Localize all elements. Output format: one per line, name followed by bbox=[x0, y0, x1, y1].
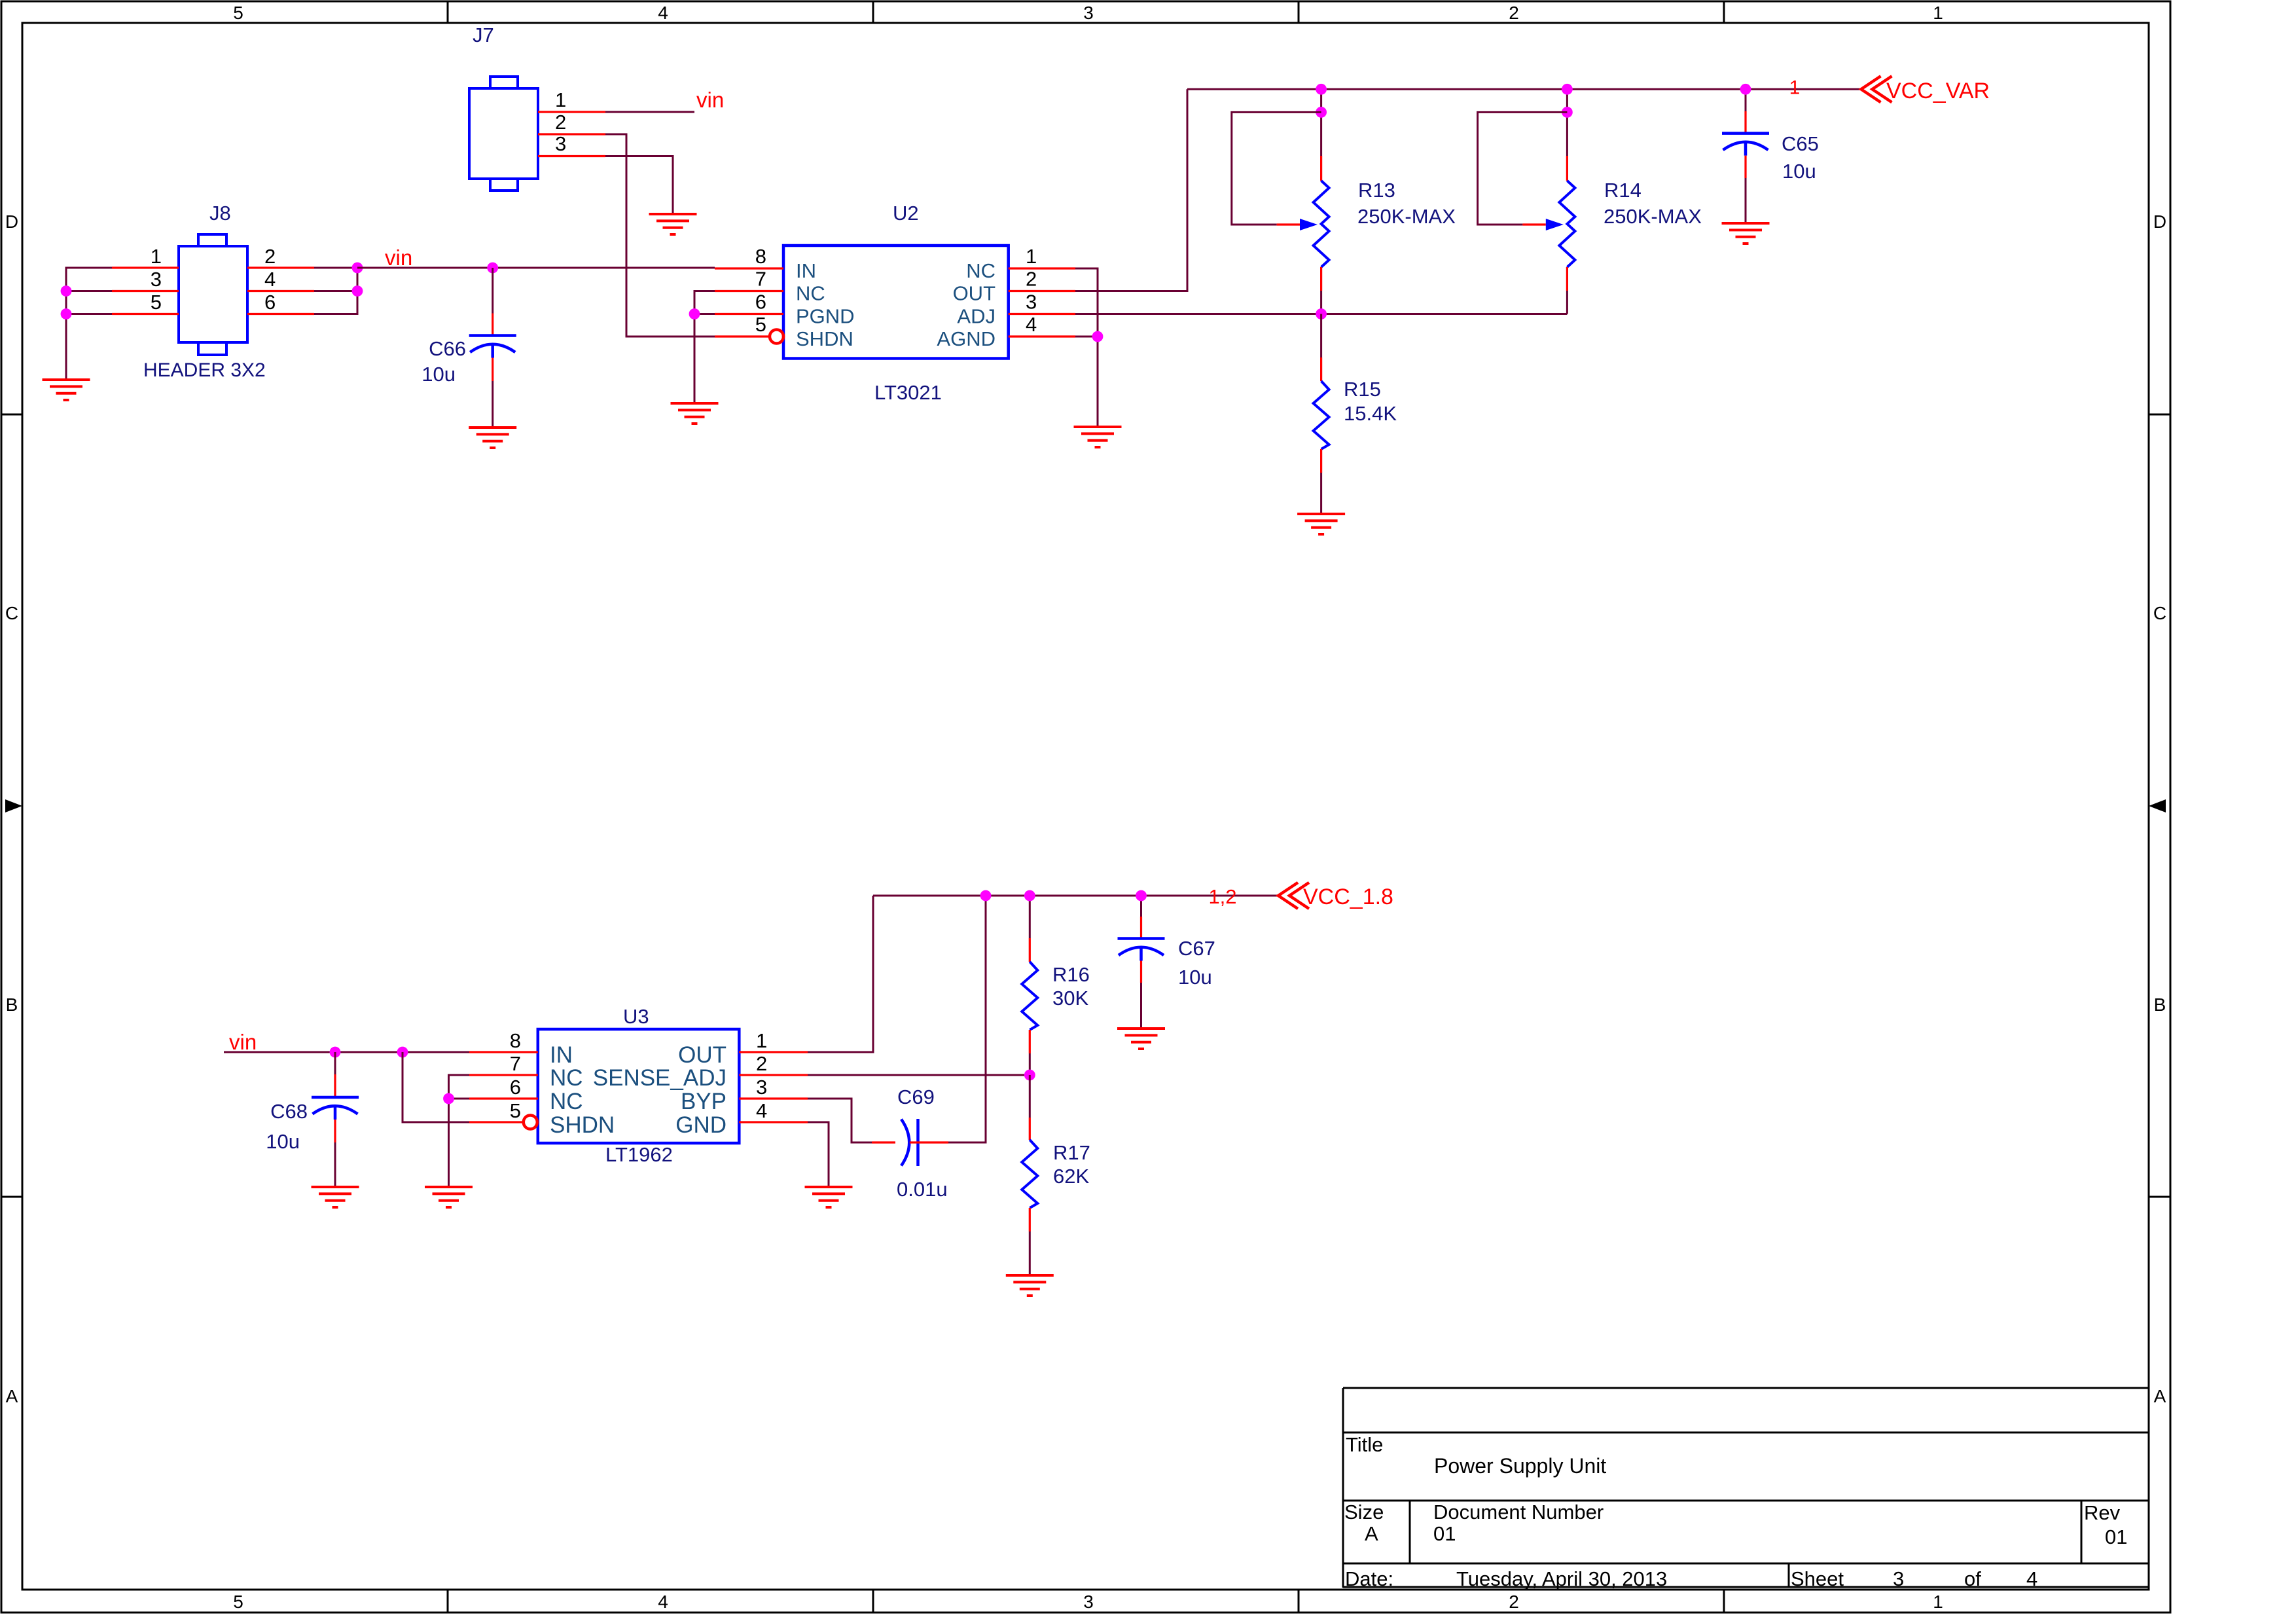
svg-text:0.01u: 0.01u bbox=[897, 1178, 948, 1201]
junction R14 wiper bbox=[1562, 107, 1573, 118]
svg-text:SENSE_ADJ: SENSE_ADJ bbox=[593, 1065, 726, 1091]
wire R14 bottom bbox=[1566, 267, 1568, 291]
J7 pin 2 bbox=[538, 133, 605, 135]
svg-text:3: 3 bbox=[1083, 1592, 1094, 1612]
wire U3 OUT up bbox=[808, 896, 873, 1052]
svg-text:1: 1 bbox=[151, 245, 162, 268]
J8 pin 1 bbox=[112, 266, 179, 268]
ground C67 bbox=[1117, 1029, 1165, 1049]
J8 pin 4 bbox=[247, 290, 314, 292]
svg-text:Title: Title bbox=[1346, 1433, 1383, 1456]
wire U2 OUT up bbox=[1075, 89, 1187, 291]
wire C68 top bbox=[334, 1052, 336, 1074]
svg-text:62K: 62K bbox=[1053, 1165, 1089, 1188]
power port VCC_1.8 bbox=[1278, 883, 1309, 909]
svg-text:5: 5 bbox=[233, 1592, 243, 1612]
svg-text:01: 01 bbox=[2105, 1525, 2127, 1548]
wire J7-3 to gnd bbox=[605, 156, 673, 215]
ground C66 bbox=[469, 428, 516, 448]
U3 pin 2 SENSE_ADJ bbox=[739, 1074, 808, 1076]
ground U2 AGND bbox=[1074, 427, 1122, 447]
capacitor C68 bbox=[312, 1097, 359, 1120]
wire C65 bottom bbox=[1744, 156, 1746, 178]
wire C67 top bbox=[1140, 896, 1142, 917]
svg-text:C69: C69 bbox=[897, 1085, 935, 1108]
wire J8 left bus bbox=[66, 268, 112, 380]
svg-text:2: 2 bbox=[1509, 1592, 1519, 1612]
resistor R15 bbox=[1314, 381, 1329, 449]
svg-text:C: C bbox=[2153, 603, 2166, 623]
ground U3 NC bbox=[425, 1187, 473, 1207]
svg-text:Sheet: Sheet bbox=[1791, 1567, 1844, 1590]
junction J8-3 bbox=[61, 285, 72, 297]
svg-text:AGND: AGND bbox=[937, 327, 996, 350]
junction PGND bbox=[689, 308, 700, 319]
svg-text:HEADER 3X2: HEADER 3X2 bbox=[143, 359, 266, 381]
frame mid arrows bbox=[5, 799, 22, 812]
svg-text:IN: IN bbox=[796, 259, 816, 282]
U2 pin 3 ADJ bbox=[1009, 313, 1075, 315]
svg-text:U3: U3 bbox=[623, 1005, 649, 1028]
svg-text:A: A bbox=[1365, 1522, 1378, 1545]
ground J7-3 bbox=[649, 214, 697, 234]
svg-text:3: 3 bbox=[1026, 291, 1037, 314]
svg-text:2: 2 bbox=[756, 1052, 767, 1075]
svg-text:4: 4 bbox=[658, 3, 668, 23]
U2 pin 6 PGND bbox=[715, 313, 783, 315]
junction vin-C68 bbox=[330, 1047, 341, 1058]
svg-text:4: 4 bbox=[264, 268, 276, 291]
capacitor C67 bbox=[1118, 939, 1165, 961]
svg-text:2: 2 bbox=[1026, 268, 1037, 291]
junction AGND bbox=[1092, 331, 1103, 342]
svg-text:7: 7 bbox=[755, 268, 766, 291]
svg-text:Power Supply Unit: Power Supply Unit bbox=[1434, 1454, 1606, 1478]
ground J8 bbox=[43, 380, 90, 400]
U3 pin 5 SHDN bbox=[469, 1121, 524, 1123]
svg-text:vin: vin bbox=[696, 88, 724, 112]
svg-text:4: 4 bbox=[756, 1099, 767, 1122]
wire C68 bottom bbox=[334, 1120, 336, 1142]
junction R13 wiper bbox=[1316, 107, 1327, 118]
U3 pin 8 IN bbox=[469, 1051, 538, 1053]
wire VCC_VAR rail bbox=[1187, 88, 1861, 90]
connector J8 bbox=[179, 234, 247, 355]
svg-text:A: A bbox=[2154, 1386, 2166, 1406]
svg-text:VCC_1.8: VCC_1.8 bbox=[1303, 884, 1393, 909]
svg-text:5: 5 bbox=[233, 3, 243, 23]
svg-text:R15: R15 bbox=[1344, 378, 1381, 401]
svg-text:2: 2 bbox=[264, 245, 276, 268]
U2 pin 2 OUT bbox=[1009, 290, 1075, 292]
ground U2 PGND bbox=[671, 403, 719, 424]
junction R16 top bbox=[1024, 890, 1035, 902]
svg-text:Date:: Date: bbox=[1345, 1567, 1393, 1590]
wire J8 right bus bbox=[314, 267, 357, 269]
J7 pin 1 bbox=[538, 111, 605, 113]
svg-text:10u: 10u bbox=[1178, 966, 1212, 989]
wire R13 wiper loop bbox=[1232, 112, 1321, 225]
svg-text:PGND: PGND bbox=[796, 305, 855, 328]
svg-text:LT1962: LT1962 bbox=[605, 1143, 673, 1166]
wire J7-1 vin bbox=[605, 111, 694, 113]
ground U3 GND bbox=[805, 1187, 853, 1207]
svg-text:C65: C65 bbox=[1782, 132, 1819, 155]
wire C67 bottom bbox=[1140, 961, 1142, 983]
wire R13 bottom bbox=[1320, 267, 1322, 291]
U2 pin 8 IN bbox=[715, 267, 783, 269]
svg-text:Rev: Rev bbox=[2084, 1501, 2121, 1524]
svg-text:1,2: 1,2 bbox=[1208, 885, 1236, 908]
wire U3 SENSE rail bbox=[808, 1074, 1030, 1076]
resistor R16 bbox=[1022, 962, 1037, 1030]
wire R13 top bbox=[1320, 89, 1322, 112]
svg-text:15.4K: 15.4K bbox=[1344, 402, 1397, 425]
svg-text:R13: R13 bbox=[1358, 179, 1395, 202]
junction C67 bbox=[1136, 890, 1147, 902]
U3 pin 1 OUT bbox=[739, 1051, 808, 1053]
svg-text:3: 3 bbox=[1083, 3, 1094, 23]
svg-text:GND: GND bbox=[675, 1112, 726, 1138]
svg-text:vin: vin bbox=[229, 1030, 257, 1054]
U3 pin 4 GND bbox=[739, 1121, 808, 1123]
svg-text:BYP: BYP bbox=[681, 1089, 726, 1114]
svg-text:R14: R14 bbox=[1604, 179, 1641, 202]
svg-text:of: of bbox=[1964, 1567, 1981, 1590]
svg-text:3: 3 bbox=[151, 268, 162, 291]
ground R15 bbox=[1297, 514, 1345, 534]
svg-text:A: A bbox=[6, 1386, 18, 1406]
U2 pin 4 AGND bbox=[1009, 335, 1075, 337]
svg-text:C68: C68 bbox=[270, 1100, 308, 1123]
svg-text:J7: J7 bbox=[473, 24, 494, 46]
svg-text:8: 8 bbox=[510, 1029, 521, 1052]
svg-text:R17: R17 bbox=[1053, 1141, 1090, 1164]
wire U3 SHDN branch bbox=[403, 1052, 469, 1122]
wire C66 top bbox=[492, 268, 493, 314]
svg-text:Tuesday, April 30, 2013: Tuesday, April 30, 2013 bbox=[1456, 1567, 1667, 1590]
svg-text:250K-MAX: 250K-MAX bbox=[1604, 205, 1702, 228]
svg-text:6: 6 bbox=[510, 1076, 521, 1099]
svg-text:3: 3 bbox=[756, 1076, 767, 1099]
svg-text:4: 4 bbox=[2026, 1567, 2037, 1590]
junction R13 top bbox=[1316, 84, 1327, 95]
junction vin-SHDN bbox=[397, 1047, 408, 1058]
junction J8-5 bbox=[61, 308, 72, 319]
ground R17 bbox=[1006, 1275, 1054, 1296]
svg-text:OUT: OUT bbox=[678, 1042, 726, 1068]
junction U3 NC bbox=[443, 1093, 454, 1104]
svg-text:1: 1 bbox=[555, 88, 566, 111]
junction SENSE bbox=[1024, 1070, 1035, 1081]
svg-text:vin: vin bbox=[385, 246, 412, 270]
wire VCC_1.8 rail bbox=[873, 895, 1278, 897]
svg-text:1: 1 bbox=[1026, 245, 1037, 268]
wire R15 top bbox=[1320, 314, 1322, 358]
svg-text:1: 1 bbox=[756, 1029, 767, 1052]
U3 pin 7 NC bbox=[469, 1074, 538, 1076]
resistor R17 bbox=[1022, 1140, 1037, 1208]
capacitor C69 bbox=[901, 1119, 918, 1166]
wire vin U3 bbox=[224, 1051, 469, 1053]
J8 pin 3 bbox=[112, 290, 179, 292]
U2 pin 1 NC bbox=[1009, 267, 1075, 269]
svg-text:5: 5 bbox=[755, 313, 766, 336]
regulator U2 body bbox=[783, 246, 1009, 359]
svg-text:10u: 10u bbox=[1782, 160, 1816, 183]
svg-text:5: 5 bbox=[510, 1099, 521, 1122]
svg-text:NC: NC bbox=[966, 259, 996, 282]
U3 pin 6 NC bbox=[469, 1097, 538, 1099]
wire R15 bottom bbox=[1320, 449, 1322, 473]
svg-text:J8: J8 bbox=[209, 202, 231, 225]
svg-text:R16: R16 bbox=[1052, 963, 1090, 986]
svg-text:5: 5 bbox=[151, 291, 162, 314]
svg-text:OUT: OUT bbox=[953, 282, 996, 305]
wire R14 wiper loop bbox=[1478, 112, 1568, 225]
svg-text:3: 3 bbox=[1893, 1567, 1904, 1590]
svg-text:D: D bbox=[5, 211, 18, 232]
svg-text:SHDN: SHDN bbox=[550, 1112, 615, 1138]
wire R16 bottom bbox=[1029, 1030, 1031, 1053]
J8 pin 6 bbox=[247, 313, 314, 315]
svg-text:U2: U2 bbox=[893, 202, 919, 225]
capacitor C65 bbox=[1722, 134, 1769, 156]
J8 pin 2 bbox=[247, 266, 314, 268]
ground C65 bbox=[1722, 223, 1770, 244]
wire U2 ADJ rail bbox=[1075, 313, 1567, 315]
junction J8-4 bbox=[352, 285, 363, 297]
svg-text:1: 1 bbox=[1933, 3, 1943, 23]
wire R17 bottom bbox=[1029, 1208, 1031, 1231]
svg-text:4: 4 bbox=[658, 1592, 668, 1612]
svg-text:1: 1 bbox=[1933, 1592, 1943, 1612]
wire C65 top bbox=[1745, 89, 1747, 111]
svg-text:8: 8 bbox=[755, 245, 766, 268]
U2 pin 5 SHDN bbox=[715, 335, 770, 337]
ground C68 bbox=[312, 1187, 359, 1207]
svg-text:30K: 30K bbox=[1052, 987, 1088, 1010]
svg-text:250K-MAX: 250K-MAX bbox=[1357, 205, 1456, 228]
wire U3 NC tie bbox=[449, 1075, 470, 1099]
svg-text:3: 3 bbox=[555, 132, 566, 155]
junction C65 bbox=[1740, 84, 1751, 95]
svg-text:01: 01 bbox=[1433, 1522, 1456, 1545]
svg-text:7: 7 bbox=[510, 1052, 521, 1075]
J7 pin 3 bbox=[538, 155, 605, 157]
junction vin-J8-2 bbox=[352, 263, 363, 274]
svg-text:6: 6 bbox=[264, 291, 276, 314]
junction ADJ-R15 bbox=[1316, 308, 1327, 319]
svg-text:2: 2 bbox=[555, 111, 566, 134]
svg-text:C66: C66 bbox=[429, 337, 466, 360]
svg-text:C: C bbox=[5, 603, 18, 623]
svg-text:10u: 10u bbox=[422, 363, 456, 386]
wire R14 top bbox=[1566, 89, 1568, 112]
svg-text:2: 2 bbox=[1509, 3, 1519, 23]
frame row ticks bbox=[1, 414, 22, 416]
wire U3 GND down bbox=[808, 1122, 829, 1187]
svg-text:B: B bbox=[2154, 994, 2166, 1015]
svg-text:6: 6 bbox=[755, 291, 766, 314]
svg-text:B: B bbox=[6, 994, 18, 1015]
wire C69 right bbox=[918, 1141, 949, 1143]
power port VCC_VAR bbox=[1861, 76, 1892, 102]
svg-text:Size: Size bbox=[1344, 1501, 1384, 1523]
wire U3 BYP bbox=[808, 1099, 872, 1142]
junction R14 top bbox=[1562, 84, 1573, 95]
svg-text:C67: C67 bbox=[1178, 937, 1215, 960]
svg-text:VCC_VAR: VCC_VAR bbox=[1886, 79, 1990, 103]
svg-text:SHDN: SHDN bbox=[796, 327, 853, 350]
wire U2 NC7/PGND to gnd bbox=[694, 291, 715, 314]
potentiometer R13 bbox=[1314, 181, 1329, 267]
svg-text:10u: 10u bbox=[266, 1130, 300, 1153]
junction C69-VCC bbox=[980, 890, 992, 902]
svg-text:D: D bbox=[2153, 211, 2166, 232]
svg-text:NC: NC bbox=[550, 1065, 583, 1091]
wire J7-2 to SHDN bbox=[605, 134, 715, 337]
junction vin-C66 bbox=[487, 263, 498, 274]
svg-text:LT3021: LT3021 bbox=[874, 381, 942, 404]
title block grid bbox=[1343, 1388, 2149, 1588]
svg-text:1: 1 bbox=[1789, 77, 1801, 99]
svg-text:NC: NC bbox=[796, 282, 825, 305]
U3 pin 3 BYP bbox=[739, 1097, 808, 1099]
regulator U3 body bbox=[538, 1029, 740, 1143]
connector J7 bbox=[469, 77, 538, 191]
wire vin rail bbox=[357, 267, 715, 269]
J8 pin 5 bbox=[112, 313, 179, 315]
wire U2 NC1/AGND bbox=[1075, 268, 1098, 337]
wire R17 top bbox=[1029, 1075, 1031, 1118]
svg-text:NC: NC bbox=[550, 1089, 583, 1114]
U2 pin 7 NC bbox=[715, 290, 783, 292]
frame column ticks bbox=[447, 1, 449, 23]
svg-text:4: 4 bbox=[1026, 313, 1037, 336]
potentiometer R14 bbox=[1559, 181, 1575, 267]
svg-text:ADJ: ADJ bbox=[957, 305, 996, 328]
svg-text:Document Number: Document Number bbox=[1433, 1501, 1604, 1523]
wire C66 bottom bbox=[492, 358, 493, 382]
svg-text:IN: IN bbox=[550, 1042, 573, 1068]
wire R16 top bbox=[1029, 896, 1031, 938]
capacitor C66 bbox=[469, 336, 516, 358]
